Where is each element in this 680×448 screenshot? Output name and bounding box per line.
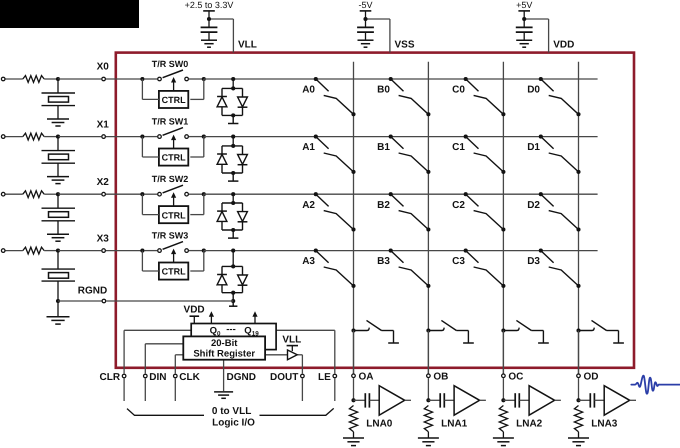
svg-text:DGND: DGND: [227, 372, 256, 383]
svg-text:LNA1: LNA1: [441, 418, 468, 429]
svg-text:X2: X2: [97, 177, 110, 188]
svg-text:RGND: RGND: [78, 286, 107, 297]
svg-text:DIN: DIN: [149, 372, 166, 383]
svg-text:0 to VLL: 0 to VLL: [212, 406, 251, 417]
svg-text:A3: A3: [302, 256, 315, 267]
svg-text:A0: A0: [302, 85, 315, 96]
svg-text:---: ---: [226, 324, 236, 335]
svg-text:C2: C2: [452, 200, 465, 211]
svg-text:CTRL: CTRL: [162, 267, 186, 277]
svg-text:OC: OC: [508, 372, 523, 383]
svg-text:20-Bit: 20-Bit: [211, 338, 238, 349]
svg-text:D0: D0: [527, 85, 540, 96]
svg-text:VSS: VSS: [395, 40, 415, 51]
svg-text:Shift Register: Shift Register: [193, 349, 255, 360]
svg-text:D2: D2: [527, 200, 540, 211]
svg-text:LNA3: LNA3: [591, 418, 618, 429]
svg-text:LE: LE: [318, 372, 331, 383]
svg-text:X1: X1: [97, 119, 110, 130]
svg-text:CTRL: CTRL: [162, 95, 186, 105]
svg-text:+5V: +5V: [516, 0, 532, 10]
svg-text:X3: X3: [97, 233, 110, 244]
svg-text:C0: C0: [452, 85, 465, 96]
svg-text:+2.5 to 3.3V: +2.5 to 3.3V: [185, 0, 234, 10]
svg-text:CTRL: CTRL: [162, 153, 186, 163]
svg-text:DOUT: DOUT: [270, 372, 298, 383]
svg-text:A2: A2: [302, 200, 315, 211]
svg-text:C1: C1: [452, 142, 465, 153]
svg-text:T/R SW0: T/R SW0: [152, 59, 189, 69]
svg-text:X0: X0: [97, 62, 110, 73]
svg-text:CTRL: CTRL: [162, 210, 186, 220]
svg-text:VDD: VDD: [184, 305, 205, 316]
svg-text:T/R SW2: T/R SW2: [152, 174, 189, 184]
svg-text:C3: C3: [452, 256, 465, 267]
svg-text:T/R SW1: T/R SW1: [152, 116, 189, 126]
svg-text:B1: B1: [377, 142, 390, 153]
svg-text:CLK: CLK: [179, 372, 200, 383]
svg-text:LNA2: LNA2: [516, 418, 543, 429]
svg-text:B2: B2: [377, 200, 390, 211]
svg-text:OB: OB: [433, 372, 448, 383]
svg-text:T/R SW3: T/R SW3: [152, 230, 189, 240]
svg-text:B0: B0: [377, 85, 390, 96]
svg-text:VLL: VLL: [282, 334, 301, 345]
svg-text:Logic I/O: Logic I/O: [212, 417, 255, 428]
svg-text:D1: D1: [527, 142, 540, 153]
svg-text:A1: A1: [302, 142, 315, 153]
svg-text:OA: OA: [359, 372, 374, 383]
svg-text:B3: B3: [377, 256, 390, 267]
svg-text:D3: D3: [527, 256, 540, 267]
svg-text:VDD: VDD: [553, 40, 574, 51]
svg-text:-5V: -5V: [358, 0, 372, 10]
svg-text:VLL: VLL: [238, 40, 257, 51]
svg-text:LNA0: LNA0: [366, 418, 393, 429]
svg-text:CLR: CLR: [100, 372, 121, 383]
svg-text:OD: OD: [584, 372, 599, 383]
